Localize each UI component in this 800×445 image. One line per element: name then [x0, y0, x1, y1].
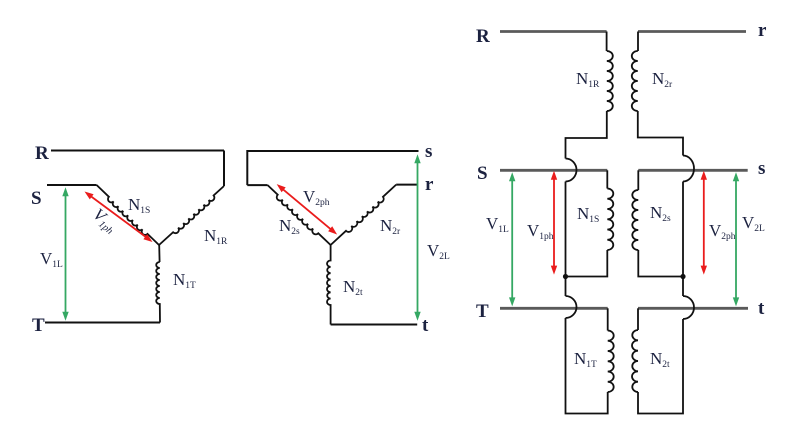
svg-text:V1L: V1L: [40, 249, 63, 270]
svg-text:V1L: V1L: [486, 214, 509, 235]
wire line T right segment: [638, 307, 748, 310]
svg-text:N1S: N1S: [577, 204, 599, 225]
svg-text:N1T: N1T: [173, 270, 196, 291]
junction secondary neutral: [680, 274, 685, 279]
svg-text:t: t: [422, 315, 429, 336]
svg-text:s: s: [758, 158, 765, 179]
wire coil N2t top to line T: [637, 308, 639, 330]
coil N2s (right diagram): [632, 190, 638, 250]
voltage arrow V1L (green, right diagram): [511, 180, 513, 299]
wire right side of N2t loop: [638, 319, 683, 414]
wire hop over line S (secondary): [683, 156, 694, 182]
coil N2s (middle diagram): [268, 185, 331, 245]
svg-text:N2t: N2t: [343, 277, 363, 298]
wire from line R down to coil N2r: [637, 32, 639, 52]
wire left side of N1T loop: [566, 318, 608, 414]
svg-text:N2s: N2s: [650, 203, 671, 224]
svg-text:T: T: [32, 315, 45, 336]
svg-text:V2L: V2L: [742, 213, 765, 234]
wire from line S down to coil N2s: [637, 170, 639, 190]
wire T line (left diagram): [45, 322, 160, 324]
wire secondary top line to s: [247, 151, 418, 185]
wire coil N1R bottom step left: [566, 111, 607, 159]
wire from line S down to coil N1S: [606, 170, 608, 188]
svg-text:r: r: [425, 174, 434, 195]
wire secondary neutral down to hop over line T: [682, 277, 684, 297]
wire down to primary neutral: [565, 182, 567, 277]
svg-text:N1T: N1T: [574, 349, 597, 370]
wire line R right segment: [638, 30, 746, 33]
svg-text:s: s: [425, 141, 432, 162]
coil N1S (left diagram, S-phase winding): [97, 185, 159, 245]
svg-text:N1R: N1R: [576, 69, 600, 90]
wire coil N2r bottom step right: [638, 111, 683, 156]
svg-text:N1R: N1R: [204, 226, 228, 247]
voltage arrow V1L (green line-to-line, left diagram): [65, 195, 67, 314]
svg-text:N1S: N1S: [128, 195, 150, 216]
wire line R left segment: [500, 30, 607, 33]
wire down to secondary neutral: [682, 182, 684, 277]
wire neutral down to hop over line T: [565, 277, 567, 297]
coil N1T (right diagram): [608, 330, 614, 392]
voltage arrow V2L (green, right diagram): [735, 180, 737, 299]
coil N2r (middle diagram): [331, 185, 397, 245]
svg-text:V2ph: V2ph: [709, 221, 736, 242]
wire hop over line S (primary): [566, 159, 577, 182]
svg-text:R: R: [35, 143, 49, 164]
svg-text:S: S: [31, 188, 42, 209]
coil N2r (right diagram): [632, 51, 638, 111]
svg-text:N2t: N2t: [650, 349, 670, 370]
wire line S left segment: [500, 169, 607, 172]
svg-text:V2ph: V2ph: [303, 187, 330, 208]
wire coil N2s bottom to secondary neutral: [638, 250, 683, 277]
svg-text:S: S: [477, 163, 488, 184]
wire corner into coil N2s: [247, 184, 267, 186]
coil N1R (left diagram, R-phase winding): [159, 186, 224, 245]
wire coil N1S bottom to neutral: [566, 250, 608, 277]
svg-text:V1ph: V1ph: [527, 221, 554, 242]
wire hop over line T (primary): [566, 296, 577, 318]
wire line T left segment: [500, 307, 608, 310]
wire line S right segment: [638, 169, 747, 172]
wire R line (left diagram): [51, 150, 224, 152]
coil N1R (right diagram): [607, 51, 613, 111]
svg-text:R: R: [476, 26, 490, 47]
svg-text:r: r: [758, 20, 767, 41]
svg-text:V1ph: V1ph: [88, 205, 121, 237]
wire from line R down to coil N1R: [606, 32, 608, 52]
wire hop over line T (secondary): [683, 296, 694, 319]
wire r line (middle diagram): [396, 184, 417, 186]
coil N2t (middle diagram): [327, 245, 331, 325]
coil N1S (right diagram): [607, 189, 613, 251]
wire S line (left diagram): [47, 184, 97, 186]
wire secondary bottom line to t: [331, 324, 418, 326]
voltage arrow V2ph (red, middle diagram): [283, 189, 332, 230]
svg-text:N2r: N2r: [652, 69, 673, 90]
svg-text:V2L: V2L: [427, 241, 450, 262]
svg-text:N2s: N2s: [279, 216, 300, 237]
voltage arrow V1ph (red, right diagram): [553, 178, 555, 267]
svg-text:T: T: [476, 301, 489, 322]
voltage arrow V2L (green, middle diagram): [417, 162, 419, 314]
coil N2t (right diagram): [632, 330, 638, 392]
voltage arrow V1ph (red phase voltage, left diagram): [91, 196, 147, 238]
wire coil N1T top to line T: [607, 308, 609, 330]
voltage arrow V2ph (red, right diagram): [703, 178, 705, 267]
svg-text:N2r: N2r: [380, 216, 401, 237]
coil N1T (left diagram, T-phase winding): [156, 245, 160, 323]
svg-text:t: t: [758, 298, 765, 319]
wire R corner drop: [223, 151, 225, 187]
junction primary neutral: [563, 274, 568, 279]
